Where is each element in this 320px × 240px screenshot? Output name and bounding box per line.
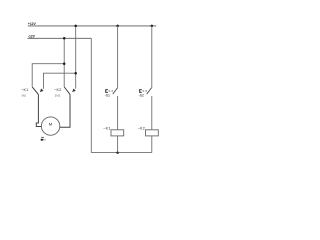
junction dot at (64.2,63.7): [63, 62, 66, 64]
junction dot on +12V rail at x=117.6: [116, 25, 119, 28]
svg-text:−K2: −K2: [138, 127, 146, 131]
junction dot at (75.7,73.2): [74, 72, 77, 75]
wire S2 bottom terminal down to coil K2: [151, 96, 153, 130]
svg-text:(N): (N): [22, 94, 26, 98]
wire from +12V rail down to K2 top-right terminal: [75, 26, 77, 89]
wire bottom bus: [91, 152, 152, 154]
wire branch left at y=73.2 to K1 top-right terminal: [44, 73, 76, 89]
svg-text:-12V: -12V: [28, 35, 36, 39]
arrowhead of K2 right terminal: [73, 89, 76, 92]
coil K2: [146, 130, 159, 136]
wire +12V rail down to S1 top terminal: [117, 26, 119, 88]
svg-text:-S2: -S2: [139, 93, 144, 97]
junction dot on -12V rail at x=64.2: [63, 37, 66, 40]
push button S1: [106, 88, 118, 94]
svg-text:-S1: -S1: [105, 93, 110, 97]
svg-text:1N1: 1N1: [55, 94, 61, 98]
wire +12V rail down to S2 top terminal: [151, 26, 153, 88]
wire S1 bottom terminal down to coil K1: [117, 96, 119, 130]
junction dot on bottom bus at x=117.6: [116, 151, 119, 154]
push button S2: [140, 88, 152, 94]
node -12V rail: [28, 37, 92, 39]
svg-text:−K2: −K2: [54, 88, 62, 92]
node +12V rail: [28, 25, 156, 27]
motor M1 circle: [41, 117, 59, 135]
svg-text:+12V: +12V: [28, 22, 37, 26]
coil K1: [111, 130, 124, 136]
wire coil K2 bottom to bus corner: [151, 136, 153, 153]
wire from -12V rail down to K2 top-left terminal: [63, 38, 65, 87]
junction dot on +12V rail at x=75.7: [74, 25, 77, 28]
junction dot on +12V rail at x=151.8: [151, 25, 154, 28]
contact K1 (changeover): [32, 87, 41, 127]
label -M1 under motor (smudge): [41, 136, 44, 139]
svg-text:M: M: [49, 122, 52, 127]
svg-text:−K1: −K1: [103, 127, 111, 131]
wire branch left at y=63.7 to K1 top-left terminal: [32, 64, 64, 87]
wire -12V rail corner down to bottom bus (x=91.3): [90, 38, 92, 152]
contact K2 (changeover): [60, 87, 70, 127]
arrowhead of K1 right terminal: [40, 89, 43, 92]
svg-text:−K1: −K1: [21, 88, 29, 92]
wire coil K1 bottom to bus: [117, 136, 119, 153]
